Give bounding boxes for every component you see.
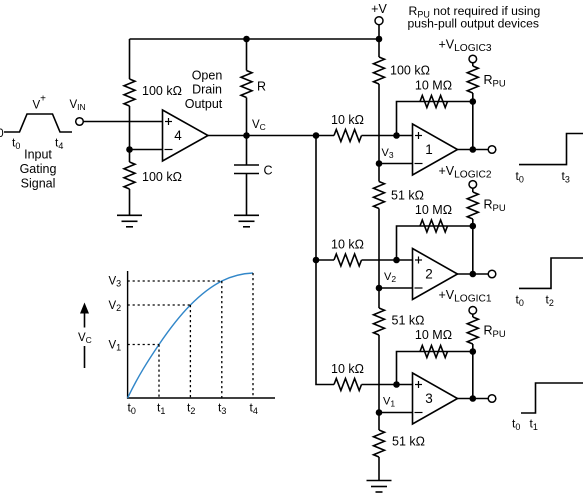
resistor 10k row3 <box>334 379 361 391</box>
ground divider <box>367 481 392 493</box>
resistor RPU3 <box>467 317 478 344</box>
node feedback1 <box>470 98 477 105</box>
wire feedback3 <box>420 351 473 353</box>
resistor 51k #2 <box>374 308 385 335</box>
svg-text:10 kΩ: 10 kΩ <box>331 113 364 127</box>
wire R column top <box>246 39 248 71</box>
chart dashed horizontal V1 <box>128 344 159 346</box>
wire +V down to divider <box>378 25 380 57</box>
capacitor C <box>234 165 259 174</box>
node comp3 plus junction <box>393 381 400 388</box>
chart dashed vertical t4 <box>252 273 254 398</box>
wire comp3 output <box>458 398 489 400</box>
terminal +V <box>375 17 383 25</box>
wire top rail <box>130 38 380 40</box>
svg-text:push-pull output devices: push-pull output devices <box>408 17 539 31</box>
wire feedback3 left leg <box>397 352 421 385</box>
svg-text:R: R <box>257 80 266 94</box>
wire 10k row1 to comp1 plus <box>362 135 413 137</box>
output waveform 1 <box>519 134 583 165</box>
wire divider segment V2 <box>378 209 380 309</box>
svg-text:C: C <box>264 164 273 178</box>
svg-text:0: 0 <box>0 128 4 140</box>
input gating waveform trapezoid <box>4 114 72 132</box>
output waveform 3 <box>521 383 583 413</box>
resistor 100k upper left <box>124 79 135 106</box>
wire comp1 output <box>458 149 489 151</box>
chart dashed vertical t3 <box>221 281 223 398</box>
wire RPU3 to comp3 output <box>472 344 474 399</box>
comp1 plus sign <box>415 132 422 139</box>
resistor 10M #3 <box>420 346 447 358</box>
node VC <box>243 132 250 139</box>
chart dashed vertical t1 <box>158 345 160 399</box>
node feedback3 <box>470 348 477 355</box>
svg-text:Output: Output <box>185 97 223 111</box>
node comp1 plus junction <box>393 132 400 139</box>
node comp1 output <box>470 146 477 153</box>
resistor 100k lower left <box>124 162 135 189</box>
chart VC charging curve <box>128 273 253 398</box>
wire VLOGIC3 to RPU1 <box>472 63 474 66</box>
wire feedback2 <box>420 225 473 227</box>
terminal output1 <box>488 146 496 154</box>
wire 10k row3 to comp3 plus <box>362 384 413 386</box>
svg-text:100 kΩ: 100 kΩ <box>142 170 182 184</box>
resistor 10k row1 <box>334 130 361 142</box>
wire to left ground <box>129 189 131 215</box>
comp3 minus sign <box>415 412 423 414</box>
terminal VIN <box>76 118 84 126</box>
ground under C <box>234 215 259 227</box>
resistor 10M #1 <box>420 96 447 108</box>
terminal output3 <box>488 395 496 403</box>
wire VLOGIC1 to RPU3 <box>472 314 474 317</box>
svg-text:10 kΩ: 10 kΩ <box>331 362 364 376</box>
comp3 plus sign <box>415 381 422 388</box>
comp2 plus sign <box>415 257 422 264</box>
wire VC node down to capacitor <box>246 136 248 166</box>
wire 10k row2 to comp2 plus <box>362 259 413 261</box>
svg-text:2: 2 <box>425 267 433 282</box>
wire left rail upper <box>129 39 131 79</box>
wire divider segment V3 <box>378 84 380 182</box>
wire V2 to comp2 minus <box>379 287 413 289</box>
wire feedback2 left leg <box>397 226 421 260</box>
wire 10k row2 lead <box>316 259 334 261</box>
wire capacitor to ground <box>246 174 248 216</box>
wire V1 to comp3 minus <box>379 412 413 414</box>
chart dashed horizontal V3 <box>128 280 222 282</box>
svg-text:1: 1 <box>425 142 433 157</box>
comparator U3 <box>413 373 458 424</box>
resistor 10k row2 <box>334 254 361 266</box>
node feedback2 <box>470 223 477 230</box>
svg-text:Signal: Signal <box>21 177 56 191</box>
node junction top rail / +V column <box>376 36 383 43</box>
chart dashed horizontal V2 <box>128 304 191 306</box>
ground left <box>117 215 142 227</box>
resistor R <box>241 71 252 98</box>
chart axes <box>128 271 275 398</box>
node comp3 output <box>470 395 477 402</box>
resistor RPU1 <box>467 66 478 93</box>
svg-text:Input: Input <box>24 148 52 162</box>
svg-text:10 MΩ: 10 MΩ <box>415 79 452 93</box>
wire feedback1 left leg <box>397 102 421 136</box>
resistor 51k #1 <box>374 182 385 209</box>
op4 plus sign <box>165 118 172 125</box>
wire RPU2 to comp2 output <box>472 219 474 274</box>
op4 minus sign <box>165 149 173 151</box>
comp2 minus sign <box>415 287 423 289</box>
svg-text:10 MΩ: 10 MΩ <box>415 203 452 217</box>
svg-text:4: 4 <box>174 128 182 143</box>
terminal +VLOGIC1 <box>469 307 477 315</box>
op-amp U4 <box>163 110 209 161</box>
wire VC to 10k row1 <box>247 135 335 137</box>
wire left rail middle <box>129 106 131 162</box>
terminal +VLOGIC3 <box>469 55 477 63</box>
wire divider segment V1 <box>378 335 380 430</box>
wire R bottom to VC node <box>246 98 248 136</box>
resistor 100k divider <box>374 57 385 84</box>
terminal +VLOGIC2 <box>469 181 477 189</box>
resistor 51k #3 <box>374 430 385 457</box>
wire V3 to comp1 minus <box>379 163 413 165</box>
node V3 <box>376 160 383 167</box>
svg-text:Gating: Gating <box>20 162 57 176</box>
svg-text:10 MΩ: 10 MΩ <box>415 328 452 342</box>
wire to op4 minus input <box>130 149 163 151</box>
resistor RPU2 <box>467 192 478 219</box>
svg-text:51 kΩ: 51 kΩ <box>391 189 424 203</box>
svg-text:Open: Open <box>192 68 223 82</box>
svg-text:Drain: Drain <box>192 83 222 97</box>
svg-text:100 kΩ: 100 kΩ <box>390 64 430 78</box>
resistor 10M #2 <box>420 220 447 232</box>
svg-text:51 kΩ: 51 kΩ <box>392 435 425 449</box>
wire feedback1 <box>420 101 473 103</box>
wire VIN to op-amp + input <box>83 121 162 123</box>
node V1 <box>376 409 383 416</box>
wire op4 output to VC node <box>208 135 247 137</box>
svg-text:3: 3 <box>425 391 433 406</box>
comparator U2 <box>413 249 458 300</box>
node V2 <box>376 285 383 292</box>
node comp2 output <box>470 271 477 278</box>
comparator U1 <box>413 124 458 175</box>
svg-text:51 kΩ: 51 kΩ <box>392 314 425 328</box>
node VC feed middle <box>313 257 320 264</box>
wire RPU1 to comp1 output <box>472 93 474 150</box>
wire comp2 output <box>458 273 489 275</box>
chart dashed vertical t2 <box>189 305 191 398</box>
comp1 minus sign <box>415 163 423 165</box>
wire VLOGIC2 to RPU2 <box>472 188 474 192</box>
wire divider to ground <box>378 457 380 481</box>
svg-text:+V: +V <box>371 2 387 16</box>
node comp2 plus junction <box>393 257 400 264</box>
chart VC axis arrow <box>84 313 86 328</box>
terminal output2 <box>488 270 496 278</box>
svg-text:10 kΩ: 10 kΩ <box>331 238 364 252</box>
chart VC axis lower segment <box>84 346 86 368</box>
output waveform 2 <box>519 258 583 288</box>
node divider tap to op4 minus <box>126 146 133 153</box>
svg-text:100 kΩ: 100 kΩ <box>142 84 182 98</box>
wire VC feed vertical <box>316 136 334 385</box>
node VC feed top <box>313 132 320 139</box>
node junction top rail / R column <box>243 36 250 43</box>
